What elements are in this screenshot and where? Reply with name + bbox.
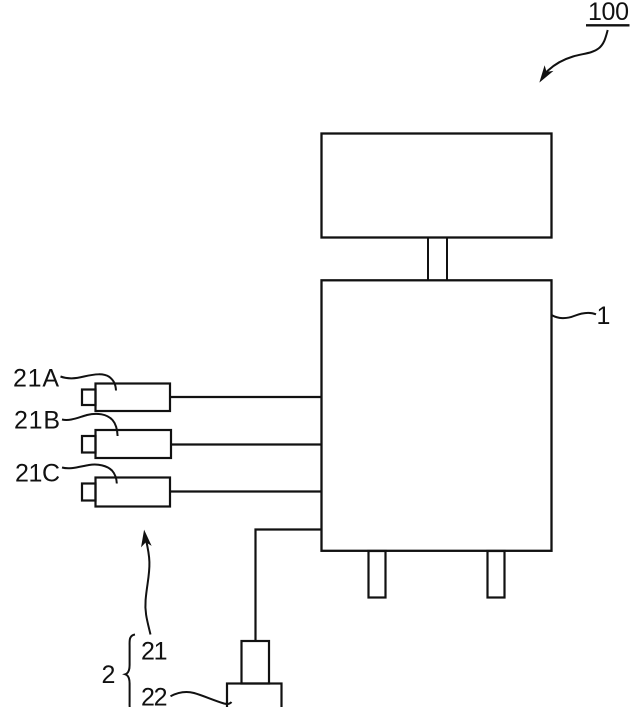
connector 21C: tip square bbox=[82, 484, 96, 501]
connector 21A: plug body bbox=[96, 384, 171, 412]
wire: L-shaped cable from main body down to component 22 bbox=[256, 530, 322, 642]
wire from connector 21C to main body bbox=[170, 490, 322, 492]
label 100 (figure reference numeral, underlined) bbox=[586, 0, 630, 26]
component 22: upper narrow block (plug neck) bbox=[242, 641, 270, 684]
arrow from label 100 to system (curved leader with arrowhead) bbox=[540, 30, 607, 81]
wire: connector between top unit and main body (two vertical lines) bbox=[428, 238, 447, 281]
component 22: lower wide block (plug body, cut by frame) bbox=[227, 684, 282, 707]
box: main body of apparatus 1 bbox=[322, 280, 552, 551]
wire from connector 21A to main body bbox=[170, 396, 322, 398]
label 2 (group numeral) bbox=[102, 661, 116, 689]
brace grouping 21 and 22 bbox=[125, 635, 135, 707]
leg: left foot under main body bbox=[369, 551, 386, 598]
leader from 21B to connector B bbox=[62, 414, 118, 436]
label 1 with wavy leader to main body bbox=[552, 302, 610, 330]
label 21A bbox=[13, 365, 59, 393]
connector 21B: plug body bbox=[96, 430, 172, 458]
svg-text:1: 1 bbox=[597, 302, 611, 330]
arrow pointing up at connector group 21 bbox=[142, 531, 151, 634]
connector 21A: tip square bbox=[82, 390, 96, 406]
svg-text:21B: 21B bbox=[14, 407, 60, 435]
label 21B bbox=[14, 407, 60, 435]
leader from 22 to component 22 bbox=[171, 692, 232, 704]
svg-text:22: 22 bbox=[141, 684, 168, 707]
label 21 (inside brace) bbox=[141, 638, 168, 666]
leg: right foot under main body bbox=[488, 551, 505, 598]
wire from connector 21B to main body bbox=[171, 443, 322, 445]
svg-text:21: 21 bbox=[141, 638, 168, 666]
connector 21C: plug body bbox=[96, 478, 171, 507]
label 22 (inside brace) bbox=[141, 684, 168, 707]
svg-text:2: 2 bbox=[102, 661, 116, 689]
leader from 21A to connector A bbox=[61, 374, 117, 390]
svg-text:21C: 21C bbox=[15, 460, 60, 488]
leader from 21C to connector C bbox=[62, 465, 117, 484]
svg-text:21A: 21A bbox=[13, 365, 59, 393]
label 21C bbox=[15, 460, 60, 488]
box: top unit of apparatus 1 bbox=[322, 134, 552, 238]
svg-text:100: 100 bbox=[588, 0, 629, 26]
connector 21B: tip square bbox=[82, 436, 96, 453]
